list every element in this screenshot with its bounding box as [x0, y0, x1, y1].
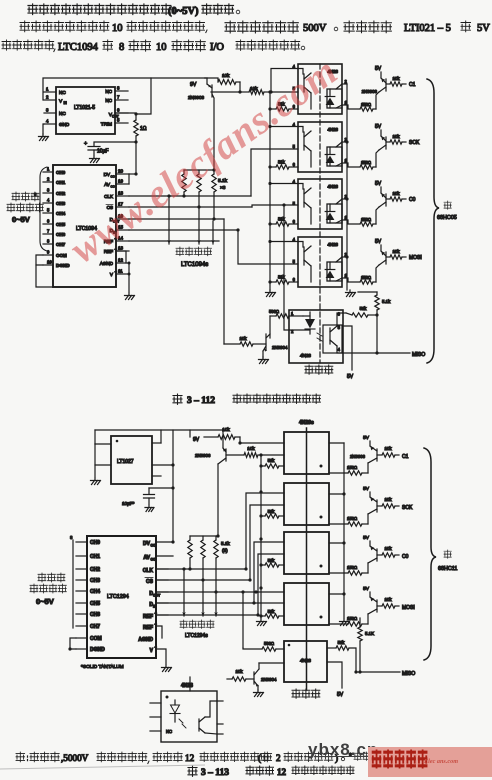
- svg-text:150Ω: 150Ω: [361, 160, 371, 165]
- ground below 10uF cap: [145, 505, 153, 508]
- svg-text:5: 5: [47, 208, 50, 213]
- svg-text:10k: 10k: [392, 249, 400, 254]
- wire DIN rail to optocoupler row 4: [238, 230, 298, 264]
- svg-text:51k: 51k: [268, 509, 276, 514]
- svg-text:LT1027: LT1027: [117, 459, 134, 465]
- svg-text:0~5V: 0~5V: [36, 597, 54, 606]
- svg-text:CC: CC: [151, 544, 156, 548]
- ground below U2 AGND: [125, 293, 134, 296]
- U9 right pin stubs: [156, 568, 168, 570]
- svg-text:150Ω: 150Ω: [361, 275, 371, 280]
- wire Vout node to 1-ohm resistor: [115, 112, 136, 114]
- svg-text:10k: 10k: [384, 546, 392, 551]
- U4 LED glyph: [329, 147, 331, 154]
- resistor 51k emitter U5: [270, 223, 276, 225]
- svg-text:1: 1: [291, 311, 294, 316]
- U3 LED glyph: [329, 89, 331, 96]
- svg-text:150Ω: 150Ω: [347, 465, 357, 470]
- resistor 10k Q3 to opto: [226, 454, 244, 456]
- wire LED cathode to rail C0: [342, 198, 347, 200]
- wire Q3 output to opto row1: [239, 437, 241, 443]
- optocoupler 4N28 row C0: [284, 532, 329, 574]
- optocoupler 4N28 MISO circuit 2: [284, 641, 327, 682]
- svg-text:NC: NC: [59, 90, 66, 95]
- svg-text:51k: 51k: [278, 217, 286, 222]
- svg-text:4: 4: [47, 198, 50, 203]
- resistor 5.1K pull-up circuit 2: [359, 618, 361, 627]
- wire REF+ line: [129, 240, 219, 242]
- wire Vout to 5V distribution bus: [136, 78, 151, 114]
- svg-text:2N3904: 2N3904: [272, 345, 288, 350]
- watermark www.elecfans.com diagonal: [61, 35, 364, 273]
- svg-text:8: 8: [119, 42, 124, 53]
- brace to 68HC11: [424, 448, 436, 660]
- svg-text:2N3904: 2N3904: [261, 677, 277, 682]
- svg-text:6: 6: [338, 312, 341, 317]
- label to 68HC11: [444, 550, 451, 558]
- wire LED cathode to rail MOSI: [342, 256, 347, 258]
- isolation layer label circuit 2: [292, 689, 300, 698]
- svg-text:19: 19: [118, 179, 124, 184]
- detail left pin stubs: [150, 702, 161, 704]
- svg-text:LTC1094s: LTC1094s: [181, 262, 208, 268]
- wire LED cathode ground rail: [346, 84, 348, 290]
- svg-text:5V: 5V: [347, 374, 354, 380]
- wire opto to 5V circuit 2: [327, 662, 342, 688]
- wire COM DGND common: [36, 255, 43, 265]
- svg-text:MOSI: MOSI: [402, 605, 415, 611]
- svg-text:OUT: OUT: [112, 115, 119, 119]
- svg-text:2N3906: 2N3906: [188, 95, 205, 100]
- svg-text:3: 3: [47, 188, 50, 193]
- svg-text:CH4: CH4: [56, 211, 66, 216]
- resistor 10k base C0: [386, 198, 390, 200]
- resistor 5.1k MISO pull-up: [376, 292, 378, 295]
- resistor network 5.1k x3 circuit 2: [190, 535, 218, 537]
- svg-text:10μF*: 10μF*: [122, 501, 135, 506]
- svg-text:4: 4: [46, 119, 49, 124]
- svg-text:REF: REF: [143, 625, 153, 631]
- wire CS line circuit 2: [156, 579, 250, 581]
- wire LED return rail row MOSI: [329, 593, 344, 595]
- node 9V label circuit 2: [189, 430, 191, 437]
- svg-text:LTC1094: LTC1094: [58, 42, 99, 53]
- svg-text:20: 20: [118, 169, 124, 174]
- wire into detail box: [189, 677, 191, 691]
- wire V- to ground: [156, 649, 166, 664]
- svg-text:0~5V: 0~5V: [12, 215, 30, 224]
- svg-text:COM: COM: [56, 253, 67, 258]
- svg-text:4N28: 4N28: [300, 658, 311, 663]
- svg-text:×3: ×3: [220, 185, 226, 191]
- wire MISO output circuit 2: [356, 671, 400, 673]
- optocoupler 4N28 row MOSI: [284, 583, 329, 625]
- U6 LED glyph: [329, 262, 331, 269]
- detail LED glyph: [174, 700, 176, 705]
- svg-text:5.1k: 5.1k: [221, 541, 230, 546]
- wire LED ground rail circuit 2: [343, 443, 345, 618]
- svg-text:4N28: 4N28: [181, 683, 193, 689]
- svg-text:6: 6: [293, 277, 296, 282]
- isolation dashed line circuit 2: [306, 428, 308, 690]
- svg-text:CC: CC: [151, 558, 156, 562]
- svg-text:6: 6: [293, 219, 296, 224]
- svg-text:(3): (3): [222, 548, 228, 553]
- resistor 10k Q2 base: [224, 343, 240, 345]
- wire row2 base tie: [270, 126, 298, 128]
- svg-text:500Ω: 500Ω: [269, 309, 279, 314]
- U7 phototransistor glyph: [323, 325, 342, 353]
- svg-text:5V: 5V: [477, 23, 490, 34]
- wire COM DGND loop: [70, 638, 76, 649]
- resistor network 5.1k x3 pull-ups: [184, 169, 214, 171]
- isolation layer label circuit 1: [305, 365, 313, 374]
- svg-text:5: 5: [293, 144, 296, 149]
- svg-text:NC: NC: [105, 98, 112, 103]
- U5 LED glyph: [329, 204, 331, 211]
- U2 right pins 20-11 with labels: [116, 173, 129, 175]
- svg-text:LTC1294s: LTC1294s: [185, 633, 208, 639]
- transistor Q3 2N3906 driver circuit 2: [222, 430, 224, 448]
- ground at bottom of 51k rail: [266, 290, 275, 293]
- U1 right pins 8,7,6,5 NC NC Vout TRIM: [115, 90, 128, 92]
- svg-text:51k: 51k: [278, 160, 286, 165]
- svg-text:10k: 10k: [222, 73, 230, 78]
- svg-text:CH0: CH0: [90, 540, 100, 546]
- svg-text:CH3: CH3: [90, 578, 100, 584]
- optocoupler 4N28 row SCK: [284, 483, 329, 525]
- wire LED return rail row SCK: [329, 493, 344, 495]
- wire DOUT rail to 500 ohm: [242, 592, 244, 648]
- optocoupler U3 4N28: [298, 64, 342, 114]
- detail right pin stubs: [217, 700, 223, 702]
- wire LED return rail row C0: [329, 542, 344, 544]
- svg-text:5V: 5V: [363, 535, 370, 541]
- ground below U9: [162, 665, 171, 668]
- svg-text:5V: 5V: [363, 586, 370, 592]
- wire common ground rail circuit 2: [260, 466, 262, 618]
- wire LED return rail row C1: [329, 442, 344, 444]
- ground LED rail circuit 1: [346, 290, 355, 293]
- svg-text:11: 11: [118, 269, 123, 274]
- svg-text:10k: 10k: [247, 446, 255, 451]
- U8 top supply loop: [95, 429, 223, 431]
- svg-text:10k: 10k: [392, 134, 400, 139]
- capacitor C1 10uF with polarity: [94, 136, 136, 146]
- optocoupler detail 4N28 internal structure: [161, 691, 217, 742]
- caption figure 3-113: [188, 766, 197, 776]
- U7 photon arrows: [317, 333, 322, 341]
- wire DIN rail to row 3: [254, 542, 284, 603]
- svg-text:150Ω: 150Ω: [347, 516, 357, 521]
- IC U9 LTC1294 ADC: [87, 536, 156, 658]
- resistor 150 ohm C0: [342, 220, 360, 224]
- resistor 150 ohm SCK: [342, 163, 360, 167]
- optocoupler U7 4N28 MISO return: [289, 310, 343, 363]
- svg-text:3: 3: [46, 108, 49, 113]
- svg-text:MOSI: MOSI: [409, 255, 422, 261]
- wire 10k junction down to base line: [239, 82, 241, 92]
- wire CLK rail to optocoupler row 2: [251, 149, 298, 196]
- svg-text:150Ω: 150Ω: [361, 102, 371, 107]
- transistor Q4 2N3904 circuit 2: [253, 672, 255, 684]
- svg-text:5V: 5V: [363, 435, 370, 441]
- note line text: [16, 752, 25, 762]
- logo text dianzifashaoyou: [372, 750, 428, 769]
- svg-text:51k: 51k: [278, 275, 286, 280]
- U3 phototransistor glyph: [303, 74, 305, 92]
- svg-text:68HC11: 68HC11: [438, 566, 457, 572]
- wire Q3 collector to 5.1k bus: [217, 464, 219, 536]
- capacitor 10uF tantalum: [149, 487, 173, 489]
- resistor 1 ohm on Vout: [135, 114, 137, 120]
- U2 left pins CH0-CH7 COM DGND: [43, 171, 53, 173]
- resistor 10k base C1: [377, 454, 382, 456]
- svg-text:5: 5: [338, 325, 341, 330]
- svg-text:68HC05: 68HC05: [437, 215, 457, 221]
- resistor 51k MISO pull circuit 2: [327, 647, 336, 649]
- optocoupler U5 4N28: [298, 179, 342, 229]
- svg-text:4N28: 4N28: [328, 242, 339, 247]
- svg-text:AGND: AGND: [138, 637, 153, 643]
- header line 1: yong-tu description text: [28, 4, 37, 15]
- wire MISO output line: [376, 315, 378, 353]
- U4 phototransistor glyph: [303, 132, 305, 150]
- sensor input label circuit 2 with bracket: [72, 540, 74, 628]
- svg-text:500Ω: 500Ω: [264, 641, 274, 646]
- U9 left pins CH0-CH7 COM DGND: [76, 541, 87, 543]
- optocoupler U6 4N28: [298, 237, 342, 287]
- ground bottom of rail circuit 2: [257, 619, 266, 622]
- wire U8 output down to LTC1294 supply: [172, 430, 174, 542]
- svg-text:NC: NC: [105, 89, 112, 94]
- svg-text:DGND: DGND: [56, 263, 70, 268]
- svg-text:C1: C1: [409, 82, 416, 88]
- svg-text:7: 7: [47, 229, 50, 234]
- svg-text:CC: CC: [111, 185, 116, 189]
- svg-text:V: V: [150, 648, 154, 654]
- wire U7 collector to 5V: [343, 326, 352, 370]
- svg-text:4: 4: [338, 347, 341, 352]
- svg-text:NC: NC: [166, 729, 172, 734]
- svg-text:CH4: CH4: [90, 589, 100, 595]
- svg-text:7: 7: [117, 95, 120, 100]
- wire REF rail to row 3b: [258, 554, 284, 615]
- op-amp U8 LT1027 voltage reference: [111, 436, 152, 484]
- resistor 10k from 9V: [204, 436, 218, 438]
- svg-text:51k: 51k: [338, 640, 346, 645]
- resistor 150 ohm SCK: [329, 523, 348, 525]
- svg-text:CH6: CH6: [90, 612, 100, 618]
- svg-text:C0: C0: [409, 197, 416, 203]
- wire CLK line circuit 2: [156, 568, 246, 570]
- svg-text:CH0: CH0: [56, 170, 66, 175]
- header line 3: LTC1094 description text: [2, 40, 11, 50]
- label to 68HC05: [444, 201, 451, 209]
- svg-text:CLK: CLK: [143, 568, 154, 574]
- svg-text:CH2: CH2: [56, 191, 66, 196]
- svg-text:8: 8: [117, 86, 120, 91]
- resistor 10k base MOSI: [377, 605, 382, 607]
- svg-text:IN: IN: [64, 101, 68, 105]
- optocoupler U4 4N28: [298, 122, 342, 172]
- svg-text:LTC1294: LTC1294: [107, 594, 129, 600]
- svg-text:2N3906: 2N3906: [195, 453, 211, 458]
- wire down to MISO opto LED return: [284, 205, 289, 330]
- wire DVcc AVcc stubs join: [171, 540, 174, 543]
- wire LED cathode to rail C1: [342, 83, 347, 85]
- resistor 10k base C0: [377, 554, 382, 556]
- svg-text:SCK: SCK: [402, 505, 413, 511]
- svg-text:10k: 10k: [384, 446, 392, 451]
- transistor Q2 2N3904 MISO driver: [269, 316, 271, 338]
- svg-text:5V: 5V: [337, 692, 344, 698]
- svg-text:CH5: CH5: [56, 222, 66, 227]
- ground below capacitor C1: [90, 156, 99, 159]
- svg-text:9V: 9V: [193, 437, 200, 443]
- svg-text:+: +: [84, 141, 87, 147]
- resistor 150 ohm MOSI: [342, 278, 360, 282]
- svg-text:SCK: SCK: [409, 140, 420, 146]
- U8 right pins: [152, 442, 161, 444]
- svg-text:MISO: MISO: [412, 352, 425, 358]
- svg-text:12: 12: [118, 258, 124, 263]
- svg-text:COM: COM: [90, 636, 102, 642]
- svg-text:OUT: OUT: [153, 594, 161, 598]
- wire DIN line: [129, 229, 238, 231]
- wire DOUT rail down to Q2: [223, 219, 225, 344]
- svg-text:5: 5: [293, 259, 296, 264]
- svg-text:DGND: DGND: [90, 647, 105, 653]
- resistor 150 ohm C1: [329, 472, 348, 474]
- resistor 150 ohm MOSI: [329, 623, 348, 625]
- ground below U1 GND pin: [43, 124, 44, 134]
- label to other LTC1094s: [176, 247, 184, 256]
- svg-text:10k: 10k: [384, 597, 392, 602]
- svg-text:8: 8: [70, 535, 73, 540]
- svg-text:CS: CS: [146, 579, 154, 585]
- svg-text:4N28s: 4N28s: [299, 420, 314, 426]
- svg-text:(0~5V): (0~5V): [168, 6, 199, 17]
- svg-text:8: 8: [47, 239, 50, 244]
- svg-text:CH7: CH7: [90, 624, 100, 630]
- svg-text:−: −: [115, 270, 117, 274]
- wire row3 base tie: [270, 183, 298, 185]
- wire DIN line circuit 2: [156, 602, 284, 604]
- wire DVcc AVcc jumper: [129, 173, 136, 175]
- svg-text:1: 1: [46, 87, 49, 92]
- svg-text:9V: 9V: [190, 82, 197, 88]
- arrows to other LTC1294s: [183, 571, 185, 616]
- svg-text:4N28: 4N28: [300, 353, 311, 358]
- caption figure 3-112: [173, 394, 182, 404]
- svg-text:I/O: I/O: [210, 42, 224, 53]
- resistor 150 ohm C0: [329, 572, 348, 574]
- svg-text:51k: 51k: [268, 609, 276, 614]
- wire CS rail to row 2b: [250, 505, 284, 580]
- wire row4 base tie: [270, 241, 298, 243]
- wire CS line: [129, 206, 252, 208]
- wire 9V supply rail to U1 Vin: [43, 78, 205, 100]
- svg-text:5V: 5V: [375, 124, 382, 130]
- svg-text:CH1: CH1: [56, 180, 66, 185]
- svg-text:10: 10: [112, 23, 123, 34]
- U7 LED glyph: [289, 315, 303, 317]
- wire REF- AGND loop: [156, 626, 162, 638]
- optocoupler 4N28 row C1: [284, 432, 329, 474]
- svg-text:5.1k: 5.1k: [382, 299, 391, 304]
- header line 2: circuit description text: [20, 21, 30, 32]
- svg-text:3 – 112: 3 – 112: [187, 396, 215, 406]
- U1 left pins 1-4 NC Vin NC GND: [44, 91, 56, 93]
- label to other LTC1294s: [180, 620, 187, 628]
- svg-text:CH7: CH7: [56, 242, 66, 247]
- brace to 68HC05: [427, 79, 439, 363]
- svg-text:51k: 51k: [268, 558, 276, 563]
- resistor 51k row1: [260, 455, 262, 466]
- svg-text:10: 10: [47, 260, 52, 265]
- resistor 10k base C1: [386, 83, 390, 85]
- svg-text:2: 2: [47, 177, 50, 182]
- U5 phototransistor glyph: [303, 189, 305, 207]
- ground LED rail circuit 2: [340, 619, 349, 622]
- U8 left pins and ground: [95, 443, 111, 445]
- svg-text:5.1k: 5.1k: [218, 178, 228, 184]
- svg-text:C0: C0: [402, 554, 409, 560]
- svg-text:GND: GND: [59, 122, 70, 127]
- svg-text:2N3906: 2N3906: [350, 454, 366, 459]
- svg-text:CH1: CH1: [90, 554, 100, 560]
- wire CS rail to optocoupler row 3: [252, 205, 298, 207]
- svg-text:10k: 10k: [384, 497, 392, 502]
- svg-text:10: 10: [156, 42, 167, 53]
- resistor 51k U7 emitter: [343, 312, 346, 314]
- IC U2 LTC1094 ADC: [53, 165, 116, 287]
- ground below Q2: [262, 351, 264, 357]
- svg-text:10k: 10k: [239, 336, 247, 341]
- svg-text:CH3: CH3: [56, 201, 66, 206]
- wire row1 phototransistor feed: [270, 91, 298, 93]
- svg-text:4N28: 4N28: [328, 127, 339, 132]
- svg-text:150Ω: 150Ω: [347, 565, 357, 570]
- resistor 150 ohm C1: [342, 105, 360, 109]
- resistor 51k emitter U4: [270, 166, 276, 168]
- watermark elecfans logo bottom right: [368, 747, 492, 777]
- svg-text:5V: 5V: [375, 239, 382, 245]
- svg-text:MISO: MISO: [402, 671, 415, 677]
- svg-text:REF: REF: [143, 614, 153, 620]
- op-amp U1 LT1021-5 voltage reference: [56, 87, 115, 134]
- svg-text:10k: 10k: [392, 191, 400, 196]
- svg-text:C1: C1: [402, 454, 409, 460]
- wire Q4 collector to LED: [259, 662, 284, 664]
- svg-text:10μF: 10μF: [97, 149, 109, 155]
- svg-text:LTI021 – 5: LTI021 – 5: [404, 23, 451, 34]
- wire common 51k ground rail: [269, 92, 271, 290]
- resistor 10k base MOSI: [386, 256, 390, 258]
- svg-text:51k: 51k: [360, 306, 368, 311]
- wire Q1 collector to pull-up bus: [213, 99, 215, 170]
- wire REF+ line circuit 2: [156, 614, 258, 616]
- resistor 51k emitter U3: [270, 108, 276, 110]
- wire LED cathode to rail SCK: [342, 141, 347, 143]
- scan artifact gray line bottom left: [0, 760, 492, 780]
- resistor 10k base SCK: [386, 141, 390, 143]
- resistor 51k emitter U6: [270, 281, 276, 283]
- svg-text:9: 9: [47, 250, 50, 255]
- transistor Q1 2N3906 clock driver: [205, 77, 207, 79]
- svg-text:10k: 10k: [392, 76, 400, 81]
